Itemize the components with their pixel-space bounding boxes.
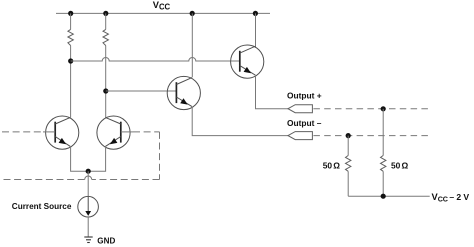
dashed input box: right edge — [159, 132, 161, 180]
junction dot R4 / VCC-2V rail — [381, 194, 386, 199]
wire node B to Q3 base — [106, 90, 176, 92]
transistor Q1 — [46, 116, 79, 149]
wire node A to Q4 base (hops over R2 wire and Q3 collector wire) — [71, 58, 240, 62]
node B dot (R2 bottom / Q3 base net) — [103, 88, 108, 93]
wire Output+ dot to R4 — [382, 109, 384, 156]
wire R2 to Q2 collector — [105, 46, 107, 118]
wire rail to R1 — [70, 13, 72, 29]
node A dot (R1 bottom / Q4 base net) — [68, 58, 73, 63]
wire rail to Q3 collector — [191, 13, 193, 77]
resistor R1 — [68, 29, 73, 45]
Output + connector — [288, 105, 312, 113]
wire to Q1 base — [43, 131, 55, 133]
junction dot rail-R2 — [103, 11, 108, 16]
ground — [84, 237, 92, 243]
svg-text:50Ω: 50Ω — [391, 160, 409, 170]
junction dot rail-Q4 collector — [253, 11, 258, 16]
tail node dot — [86, 169, 91, 174]
transistor Q4 — [231, 45, 264, 78]
dashed input box: top-right segment — [133, 131, 160, 133]
wire Output- dot to R3 — [347, 136, 349, 156]
wire rail to R2 — [105, 13, 107, 29]
wire current source to ground — [87, 217, 89, 237]
junction dot Output- / R3 — [346, 133, 351, 138]
transistor Q2 (mirrored) — [97, 116, 130, 149]
transistor Q3 — [167, 76, 200, 109]
current source I1 — [78, 196, 99, 217]
wire R3 to bottom rail — [347, 171, 349, 196]
svg-text:Output –: Output – — [287, 118, 322, 128]
junction dot Output+ / R4 — [381, 106, 386, 111]
wire R1 to Q1 collector — [70, 46, 72, 118]
junction dot rail-Q3 collector — [190, 11, 195, 16]
wire Q4 emitter to Output+ connector — [256, 75, 289, 109]
dashed line Output- — [313, 135, 430, 137]
wire Q2 emitter to tail node — [88, 146, 105, 171]
VCC rail wire — [56, 12, 270, 14]
wire rail to Q4 collector — [255, 13, 257, 47]
wire Q3 emitter to Output- connector — [192, 107, 288, 136]
resistor R3 (50 ohm left) — [346, 156, 351, 172]
dashed line Output+ — [313, 108, 429, 110]
dashed input box: top-left segment — [2, 131, 44, 133]
svg-text:VCC: VCC — [153, 0, 171, 11]
resistor R4 (50 ohm right) — [381, 156, 386, 172]
wire R4 to bottom rail — [382, 171, 384, 196]
svg-text:Output +: Output + — [287, 91, 322, 101]
wire from Q2 base — [121, 131, 133, 133]
wire VCC-2V rail — [348, 195, 430, 197]
wire Q1 emitter to tail node — [71, 146, 89, 171]
resistor R2 — [103, 29, 108, 45]
wire tail node to current source — [87, 171, 89, 196]
dashed input box: bottom edge with hop over tail wire — [92, 179, 160, 181]
svg-text:50Ω: 50Ω — [323, 160, 341, 170]
svg-text:GND: GND — [97, 236, 115, 245]
Output - connector — [288, 132, 312, 140]
svg-text:Current Source: Current Source — [12, 202, 72, 211]
junction dot rail-R1 — [68, 11, 73, 16]
svg-text:VCC–2V: VCC–2V — [432, 192, 470, 203]
